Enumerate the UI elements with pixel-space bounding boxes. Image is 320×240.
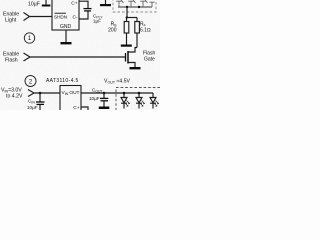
svg-text:10µF: 10µF — [27, 105, 38, 110]
svg-text:200: 200 — [108, 28, 117, 34]
svg-text:VOUT ≈4.5V: VOUT ≈4.5V — [104, 79, 131, 85]
svg-text:10µF: 10µF — [28, 1, 40, 7]
svg-text:1µF: 1µF — [93, 19, 101, 24]
svg-text:CIN: CIN — [28, 98, 35, 104]
svg-text:C+: C+ — [71, 1, 77, 7]
svg-text:VIN: VIN — [62, 90, 69, 96]
svg-text:6.1Ω: 6.1Ω — [140, 28, 151, 34]
svg-text:AAT3110-4.5: AAT3110-4.5 — [46, 78, 79, 84]
svg-text:Light: Light — [5, 18, 17, 24]
svg-text:C-: C- — [72, 15, 77, 21]
svg-text:SHDN: SHDN — [54, 15, 67, 20]
svg-text:C+: C+ — [73, 105, 79, 110]
svg-text:Gate: Gate — [144, 56, 155, 62]
svg-text:COUT: COUT — [92, 87, 103, 93]
svg-text:OUT: OUT — [69, 90, 79, 96]
svg-text:to 4.2V: to 4.2V — [6, 94, 23, 100]
svg-text:10µF: 10µF — [89, 96, 100, 101]
svg-text:GND: GND — [60, 24, 72, 30]
svg-text:Flash: Flash — [5, 58, 18, 64]
